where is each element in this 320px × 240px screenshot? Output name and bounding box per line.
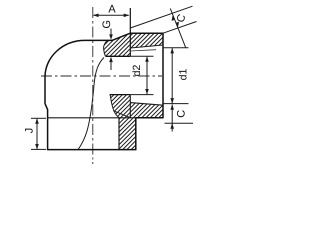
dimension J line — [36, 119, 38, 149]
label C bottom — [177, 110, 185, 117]
d1 bottom arrow — [170, 98, 174, 103]
d2 top arrow — [145, 56, 149, 61]
label C top — [176, 14, 186, 23]
upper section cut edge — [104, 40, 108, 56]
socket shoulder line — [48, 117, 136, 119]
lower section cut edge — [110, 95, 119, 118]
elbow runout curve — [78, 58, 104, 150]
lower thread taper line — [130, 103, 163, 106]
upper thread taper line — [130, 45, 163, 48]
dimension G upper arrow — [110, 29, 112, 35]
dimension A line — [94, 14, 129, 16]
d2 extension line top — [130, 55, 153, 57]
J bottom arrow — [35, 144, 39, 149]
label G — [102, 21, 110, 28]
horizontal centerline — [41, 75, 162, 77]
d2 bottom arrow — [145, 89, 149, 94]
upper taper extension slant — [130, 6, 192, 28]
upper bore line — [106, 55, 131, 57]
d1 extension line top — [163, 47, 189, 49]
C bottom lower arrow — [170, 123, 174, 128]
dimension C bottom line — [171, 105, 173, 132]
d1 extension line bottom — [163, 103, 189, 105]
elbow body outline — [45, 33, 163, 149]
dimension A right arrow — [124, 14, 130, 18]
lower taper extension slant — [163, 22, 197, 34]
hatch lower wall and bottom socket section — [110, 95, 164, 150]
J top arrow — [35, 118, 39, 123]
lower cone line — [114, 111, 131, 118]
dimension A left arrow — [93, 14, 99, 18]
lower step vertical line — [129, 95, 131, 118]
label A — [108, 5, 115, 13]
J extension line top — [31, 117, 46, 119]
d2 extension line bottom — [130, 94, 153, 96]
dimension d2 line — [146, 57, 148, 95]
hatch upper wall section — [104, 33, 163, 56]
label d2 — [132, 65, 140, 76]
lower bore line — [110, 94, 131, 96]
dimension C top lower arrow — [176, 22, 179, 28]
C bottom extension line — [165, 122, 194, 124]
label J — [25, 129, 33, 134]
J extension line bottom — [31, 148, 46, 150]
thread step and band left edge line — [129, 8, 131, 56]
d1 top arrow — [170, 48, 174, 53]
dimension C top upper arrow — [172, 15, 175, 21]
upper thread minor line — [130, 50, 156, 51]
dimension C top line — [170, 9, 185, 48]
bottom socket bore edge — [118, 118, 120, 150]
C bottom upper arrow — [170, 104, 174, 109]
vertical centerline — [92, 7, 94, 160]
label d1 — [179, 69, 187, 80]
dimension d1 line — [171, 48, 173, 103]
dimension G lower arrow — [110, 61, 112, 71]
